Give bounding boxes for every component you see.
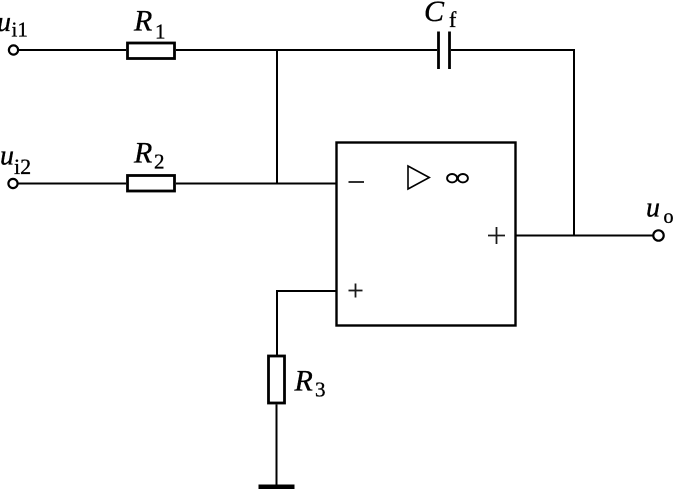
label R3 <box>294 365 326 402</box>
node ui1 input terminal <box>9 45 18 54</box>
capacitor Cf <box>439 32 450 70</box>
resistor R2 <box>128 176 175 192</box>
label ui1 <box>0 7 28 42</box>
wire non-inverting input horizontal <box>276 290 337 292</box>
op-amp output plus sign <box>488 227 505 244</box>
svg-text:R: R <box>133 137 152 170</box>
svg-text:1: 1 <box>155 20 166 44</box>
wire op-amp output <box>516 235 654 237</box>
svg-text:i2: i2 <box>14 154 31 179</box>
svg-text:3: 3 <box>315 378 326 402</box>
svg-text:f: f <box>449 7 457 32</box>
svg-text:u: u <box>646 193 660 224</box>
resistor R3 <box>269 356 285 403</box>
resistor R1 <box>128 43 175 59</box>
svg-text:R: R <box>294 365 313 398</box>
svg-text:2: 2 <box>154 150 165 174</box>
op-amp inverting input minus sign <box>349 181 365 183</box>
wire non-inverting vertical to R3 <box>276 290 278 355</box>
wire right vertical feedback <box>573 49 575 236</box>
label R1 <box>133 5 166 44</box>
wire input1 to R1 <box>19 49 127 51</box>
svg-text:R: R <box>133 5 152 38</box>
op-amp U1 body <box>337 143 516 326</box>
node ui2 input terminal <box>8 179 17 188</box>
svg-text:u: u <box>0 7 11 38</box>
wire junction vertical (inverting node) <box>276 49 278 184</box>
label uo <box>646 193 673 229</box>
svg-text:C: C <box>424 0 445 28</box>
wire capacitor to right corner <box>451 49 575 51</box>
wire R2 to op-amp inverting input <box>176 183 337 185</box>
wire R3 to ground <box>276 405 278 486</box>
svg-text:o: o <box>664 206 673 228</box>
label R2 <box>133 137 165 174</box>
wire input2 to R2 <box>18 183 126 185</box>
svg-text:u: u <box>0 141 14 172</box>
svg-text:i1: i1 <box>12 18 28 42</box>
op-amp triangle symbol <box>408 166 429 189</box>
op-amp infinity gain symbol <box>447 174 468 182</box>
label ui2 <box>0 141 31 180</box>
wire R1 to capacitor <box>176 49 437 51</box>
op-amp non-inverting input plus sign <box>349 284 363 298</box>
label Cf <box>424 0 457 32</box>
node uo output terminal <box>653 230 663 240</box>
ground <box>259 485 295 489</box>
